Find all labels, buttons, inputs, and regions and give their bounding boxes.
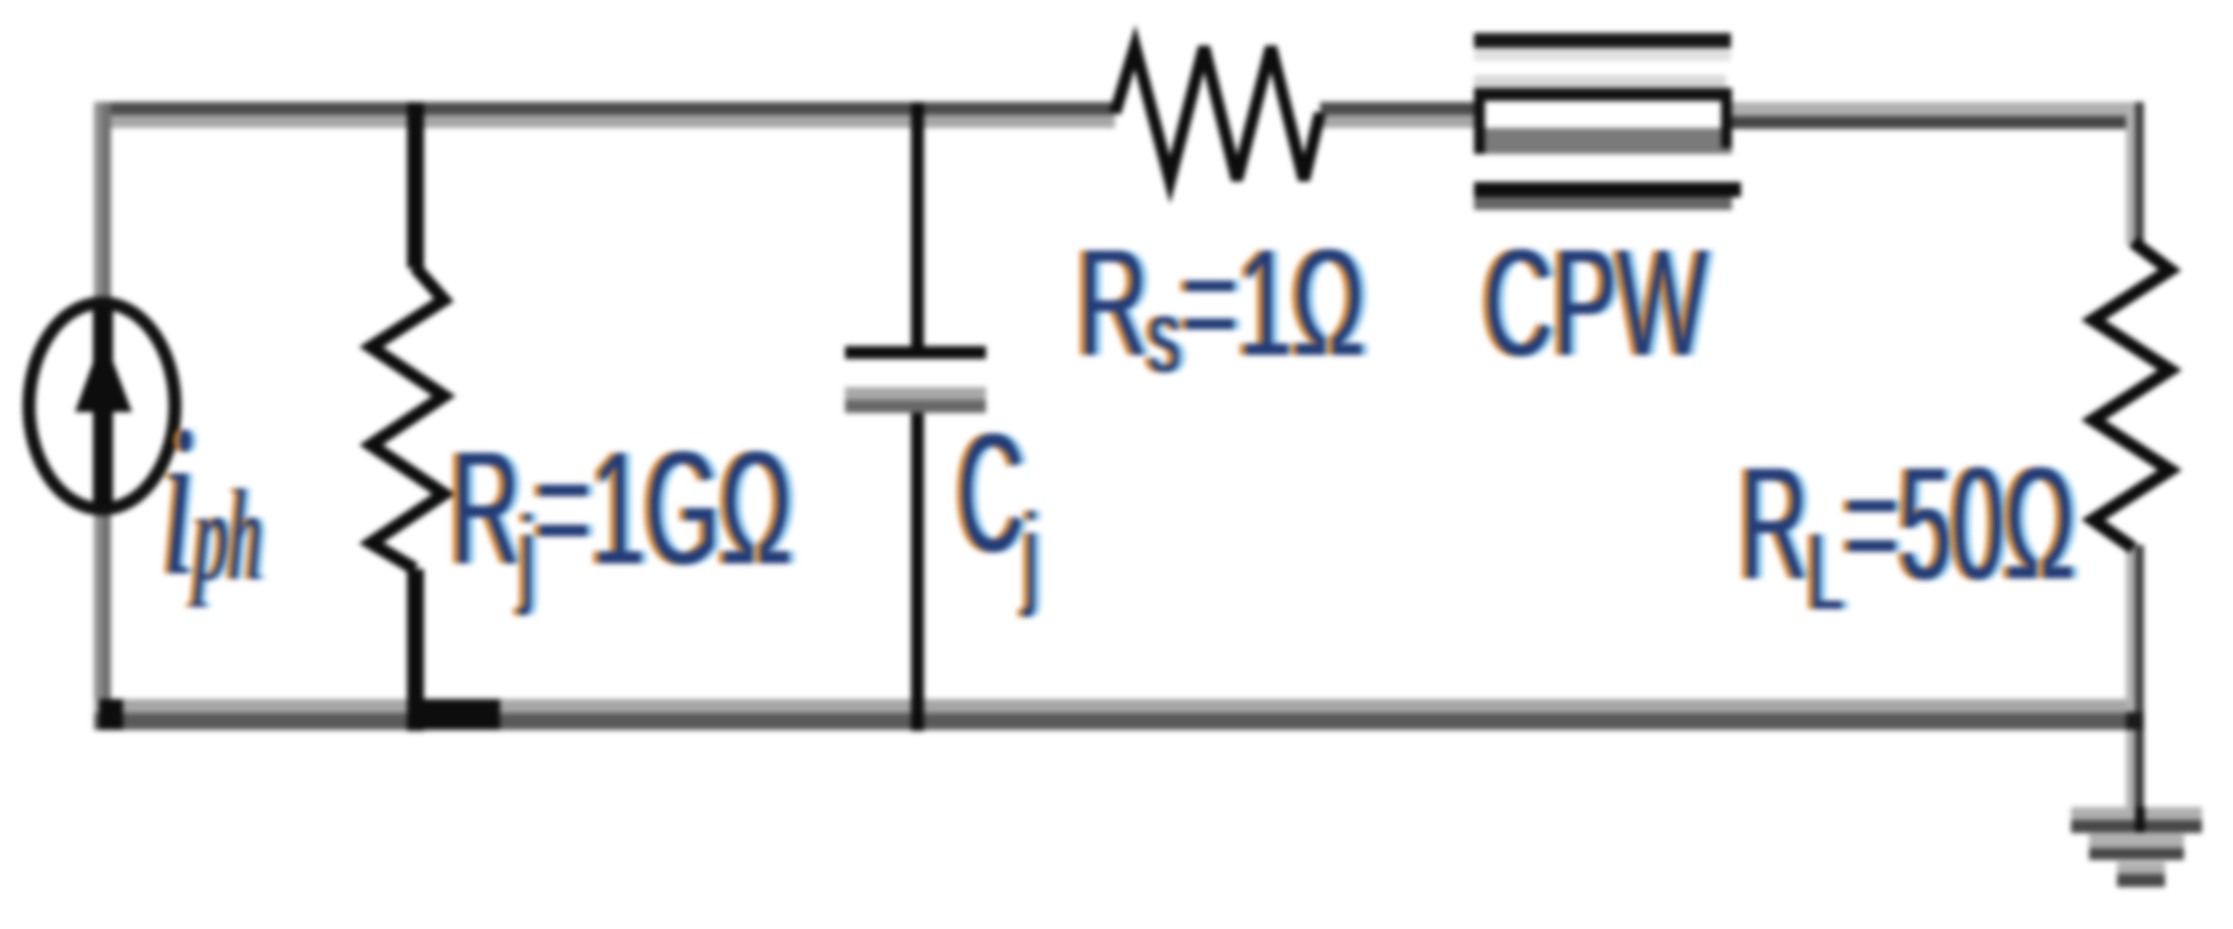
wire top-left horizontal segment bbox=[94, 102, 1115, 128]
wire top-right horizontal segment (CPW to corner) bbox=[1732, 102, 2144, 129]
CPW transmission line bbox=[1474, 33, 1741, 210]
label CPW bbox=[1484, 228, 1708, 380]
wire right vertical lower segment bbox=[2126, 545, 2144, 820]
resistor Rj bbox=[371, 102, 444, 731]
current source Iph bbox=[29, 303, 175, 509]
wire right vertical upper segment bbox=[2126, 102, 2144, 245]
node bottom-right junction bbox=[2126, 712, 2144, 730]
node bottom-left corner junction bbox=[99, 699, 123, 730]
label iph bbox=[163, 392, 263, 610]
wire top middle segment (between Rs and CPW) bbox=[1320, 102, 1474, 128]
capacitor Cj bbox=[845, 102, 986, 731]
ground bbox=[2071, 730, 2202, 887]
resistor Rs bbox=[1115, 47, 1320, 180]
wire left vertical bbox=[94, 102, 111, 730]
resistor RL bbox=[2093, 242, 2170, 548]
label Rs=1Ω bbox=[1078, 228, 1366, 380]
label Cj bbox=[958, 410, 1039, 578]
node Rj bottom junction bbox=[407, 699, 500, 730]
wire bottom horizontal bbox=[94, 699, 2144, 730]
label Rj=1GΩ bbox=[451, 429, 793, 590]
label RL=50Ω bbox=[1740, 445, 2076, 605]
